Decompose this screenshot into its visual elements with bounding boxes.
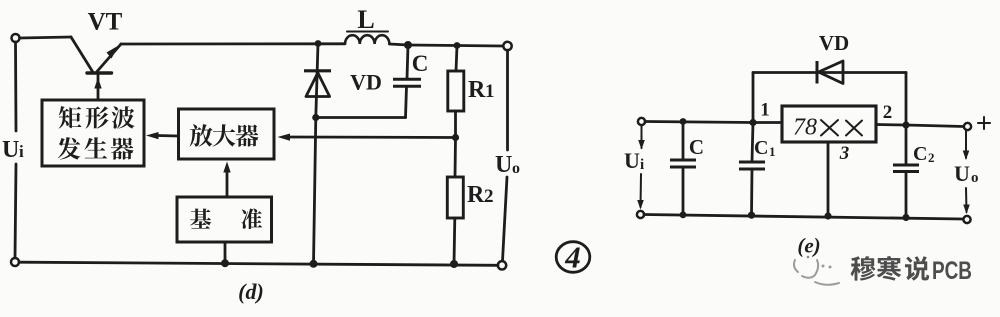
capacitor C1	[739, 123, 765, 216]
output terminal (e) bottom	[963, 216, 970, 223]
output voltage arrow lower (e)	[963, 188, 970, 214]
capacitor C (e)	[670, 122, 696, 215]
svg-text:1: 1	[485, 81, 495, 102]
label R1	[468, 77, 495, 103]
label Uo (e)	[954, 161, 979, 186]
node: VD ground junction	[310, 260, 318, 268]
svg-text:i: i	[19, 142, 24, 161]
svg-text:2: 2	[883, 102, 893, 123]
output voltage arrow upper (e)	[963, 131, 970, 160]
svg-text:3: 3	[839, 143, 850, 164]
node: C bottom (e)	[680, 211, 687, 218]
wire C bottom to VD anode node	[316, 116, 406, 119]
svg-text:C: C	[689, 135, 704, 159]
svg-text:o: o	[971, 170, 979, 186]
base drive arrow into VT	[94, 75, 101, 100]
capacitor C2	[893, 125, 919, 218]
output terminal (e) top	[964, 123, 971, 130]
wire reference to ground rail	[224, 242, 227, 263]
label L (underlined)	[347, 5, 388, 34]
node: C2 bottom	[902, 214, 909, 221]
svg-text:1: 1	[760, 100, 770, 121]
right rail lower segment	[503, 177, 508, 261]
svg-text:C: C	[754, 137, 768, 159]
pin 3 lead	[827, 142, 830, 216]
svg-text:4: 4	[564, 240, 581, 275]
label Uo (d)	[495, 152, 520, 178]
svg-text:VD: VD	[819, 31, 849, 55]
svg-text:C: C	[412, 51, 429, 76]
wire C node to R1 node	[408, 44, 457, 47]
top rail (e): input to pin1 node	[645, 122, 753, 123]
wire R1 node to output terminal	[457, 44, 503, 47]
bypass diode VD (e) with wires	[753, 61, 906, 125]
block: reference	[177, 197, 272, 242]
node: VD top junction	[315, 40, 322, 47]
input voltage arrow lower (e)	[637, 174, 644, 210]
wire pin1 node to regulator	[753, 121, 782, 124]
svg-text:U: U	[2, 137, 19, 163]
feedback wire to amplifier	[278, 134, 456, 141]
right rail upper segment	[506, 50, 509, 150]
svg-text:78: 78	[793, 115, 817, 141]
svg-text:C: C	[913, 143, 927, 165]
wire pin2 node to output terminal	[906, 125, 964, 127]
node: C top (e)	[680, 118, 687, 125]
svg-text:i: i	[640, 157, 644, 173]
node: R2 ground junction	[450, 260, 458, 268]
inductor L	[345, 35, 389, 44]
svg-text:U: U	[495, 152, 512, 178]
node: R1 top junction	[454, 42, 461, 49]
node: pin3 ground	[824, 212, 831, 219]
input voltage arrow upper (e)	[638, 126, 645, 150]
watermark text 穆寒说PCB	[851, 256, 972, 285]
node: C1 bottom	[748, 212, 755, 219]
label C2	[913, 143, 935, 165]
node: pin1 junction	[749, 119, 756, 126]
svg-text:2: 2	[484, 186, 494, 207]
ground rail (e)	[644, 215, 963, 220]
resistor R1	[448, 46, 464, 136]
capacitor C (d)	[393, 45, 421, 118]
svg-text:1: 1	[769, 144, 776, 159]
input terminal (d) Ui bottom	[11, 258, 19, 266]
label C1	[754, 137, 776, 159]
wire VD anode node to ground rail	[314, 118, 316, 264]
svg-text:R: R	[467, 182, 485, 208]
watermark logo	[794, 256, 839, 285]
input terminal (d) Ui top	[12, 34, 20, 42]
svg-text:(e): (e)	[797, 234, 820, 258]
svg-text:U: U	[624, 148, 640, 173]
svg-text:L: L	[357, 5, 374, 34]
regulator 78xx	[782, 106, 876, 142]
ground rail (d)	[19, 262, 498, 265]
wire top-left to VT emitter	[20, 37, 71, 38]
wire collector rail to L	[121, 42, 345, 45]
svg-text:2: 2	[928, 150, 935, 165]
node: C top junction	[404, 41, 412, 49]
figure number 4 (circled)	[556, 240, 590, 275]
svg-text:VT: VT	[88, 9, 123, 36]
block: rectangular-wave generator	[42, 100, 144, 166]
node: VD anode / C junction	[312, 114, 319, 121]
label Ui (e)	[624, 148, 644, 173]
signal arrow: reference to amplifier	[223, 162, 230, 198]
resistor R2	[447, 138, 463, 264]
output terminal (d) Uo bottom	[498, 261, 506, 269]
svg-text:VD: VD	[350, 70, 382, 95]
block: amplifier	[179, 109, 275, 159]
wire L to C node	[389, 44, 408, 45]
label + polarity	[978, 117, 990, 129]
node: feedback junction R1/R2	[452, 134, 459, 141]
svg-text:R: R	[468, 77, 486, 103]
input terminal (e) bottom	[637, 211, 644, 218]
svg-text:(d): (d)	[238, 279, 264, 304]
transistor VT	[71, 37, 121, 73]
left rail upper segment	[14, 42, 17, 131]
diode VD (d) freewheeling	[304, 44, 331, 118]
signal arrow: amplifier to generator	[146, 132, 179, 139]
input terminal (e) top	[638, 118, 645, 125]
wire regulator to pin2 node	[876, 123, 906, 126]
node: reference ground junction	[221, 259, 229, 267]
svg-text:o: o	[512, 160, 520, 177]
output terminal (d) Uo top	[503, 42, 511, 50]
svg-text:U: U	[954, 161, 970, 186]
label R2	[467, 182, 494, 208]
label Ui (d)	[2, 137, 24, 163]
left rail lower segment	[15, 164, 16, 258]
node: pin2 junction	[902, 121, 909, 128]
svg-text:PCB: PCB	[932, 257, 972, 285]
